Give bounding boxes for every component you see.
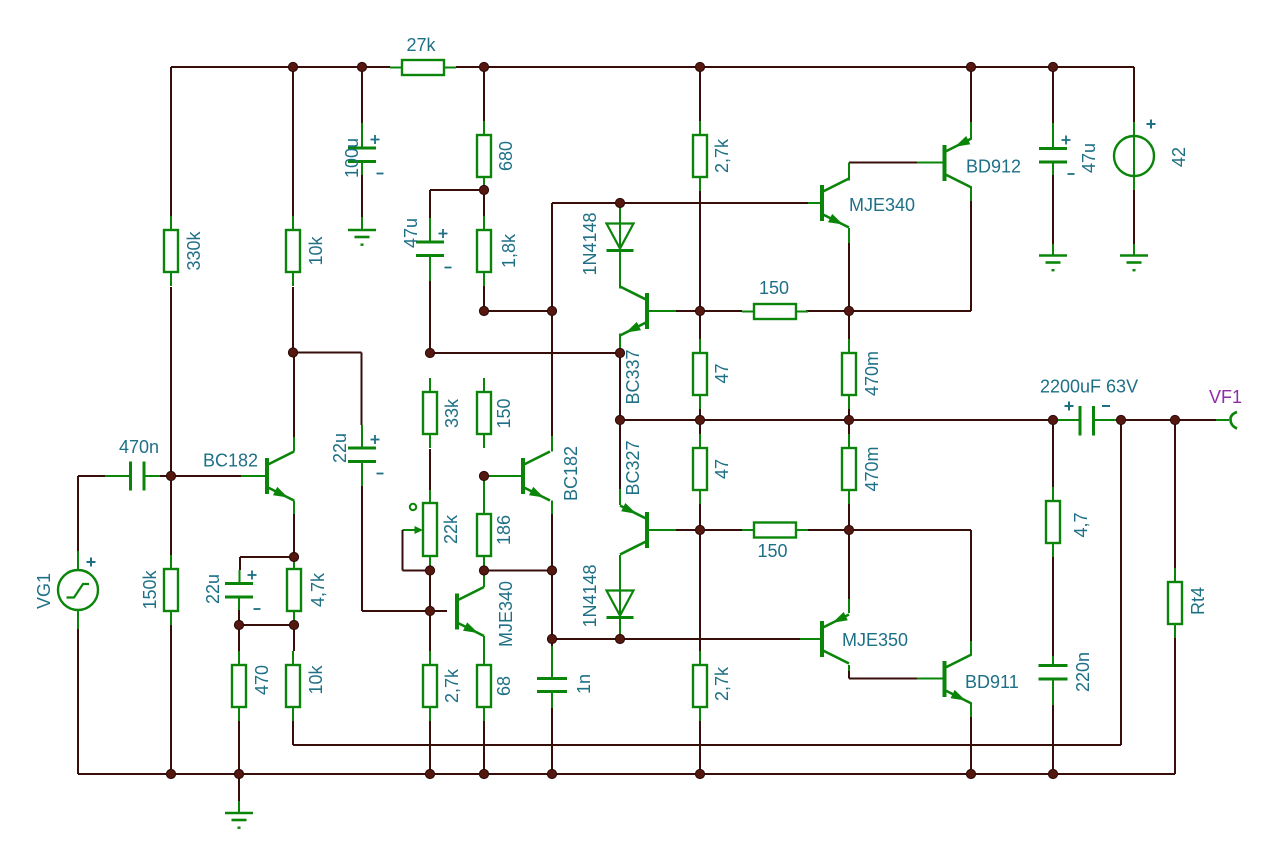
- junction node (620,203): [615, 198, 624, 207]
- junction node (293,352.5): [288, 348, 297, 357]
- wire 2.7k-3 bottom to ground bus: [699, 719, 701, 774]
- wire emitter node to 22u-2 corner: [240, 557, 294, 570]
- wire MJE340-2 base node down to 2.7k: [429, 611, 431, 651]
- wire 100u top green stub: [361, 123, 363, 148]
- wire Rt4 bottom to ground bus corner: [1174, 638, 1176, 774]
- junction node (430,611): [425, 606, 434, 615]
- svg-text:1N4148: 1N4148: [580, 212, 600, 275]
- junction node (700,420): [695, 415, 704, 424]
- wire 680 top lead from rail: [483, 67, 485, 121]
- junction node (552,311): [547, 306, 556, 315]
- transistor BD911: [943, 655, 972, 704]
- transistor BC182 input: [265, 452, 294, 501]
- wire 100u bottom green stub: [361, 162, 363, 176]
- svg-text:27k: 27k: [406, 35, 436, 55]
- wire diode node to MJE340 base: [620, 202, 808, 204]
- wire BC182-2 collector green stub: [551, 436, 553, 452]
- wire 47u-3 bottom to ground: [1052, 175, 1054, 244]
- junction node (484,67): [479, 62, 488, 71]
- wire 100u bottom to ground: [361, 175, 363, 217]
- wire output row to 47-2: [699, 420, 701, 434]
- wire BC327 base to 47 column: [676, 529, 700, 531]
- resistor 47 upper: [693, 339, 707, 409]
- potentiometer 22k: [403, 503, 438, 571]
- wire 4.7 bottom to 220n: [1052, 557, 1054, 656]
- wire 220n bottom to ground bus: [1052, 705, 1054, 774]
- wire diode-1 cathode to BC337 collector: [619, 251, 621, 289]
- svg-text:VG1: VG1: [34, 573, 54, 609]
- svg-text:2,7k: 2,7k: [712, 666, 732, 701]
- wire 220n bottom green stub: [1052, 679, 1054, 705]
- svg-text:22u: 22u: [203, 574, 223, 604]
- wire Rt4 top lead: [1174, 420, 1176, 568]
- svg-text:1,8k: 1,8k: [499, 233, 519, 268]
- wire 1n bottom green stub: [551, 692, 553, 709]
- wire diode-1 top green lead: [619, 203, 621, 224]
- wire pot bottom node down to MJE340-2 base node: [429, 571, 431, 612]
- junction node (1121,420): [1116, 415, 1125, 424]
- wire 2.7k-2 top from MJE340-2 base node: [429, 611, 431, 651]
- wire 330k top green stub: [170, 216, 172, 230]
- ground (42V source): [1120, 244, 1148, 271]
- junction node (849,530): [844, 525, 853, 534]
- wire 470n left green lead: [105, 475, 130, 477]
- wire 22u-2 bottom to 470 row: [238, 610, 240, 625]
- junction node (1175,420): [1170, 415, 1179, 424]
- wire 470 row: [239, 624, 294, 626]
- wire 680 top green stub: [483, 121, 485, 135]
- ground (main bus): [225, 801, 253, 829]
- svg-text:MJE350: MJE350: [842, 630, 908, 650]
- resistor 680: [477, 121, 491, 191]
- wire 47-1 bottom to output row: [699, 408, 701, 420]
- wire 22u-1 bottom green stub: [361, 462, 363, 487]
- wire MJE350 emitter green stub: [848, 599, 850, 613]
- wire 47u-2 top green stub: [429, 218, 431, 242]
- svg-text:MJE340: MJE340: [496, 581, 516, 647]
- wire 4.7k bottom to 470 row: [293, 611, 295, 625]
- capacitor 100u electrolytic: [348, 135, 384, 174]
- wire 10k top lead from rail: [292, 67, 294, 216]
- wire Rt4 bottom green stub: [1174, 624, 1176, 638]
- wire 42V bottom green stub: [1133, 176, 1135, 190]
- wire 4.7 top green stub: [1052, 489, 1054, 501]
- capacitor 470n input: [131, 462, 145, 491]
- resistor 470m upper: [842, 339, 856, 409]
- junction node (484,190): [479, 185, 488, 194]
- wire MJE340-2 emitter green stub: [483, 636, 485, 651]
- wire BC337 base to 2.7k column: [676, 310, 700, 312]
- junction node (294,625): [289, 620, 298, 629]
- wire MJE350 emitter from node: [848, 530, 850, 599]
- resistor Rt4: [1168, 568, 1182, 638]
- resistor 4.7k: [287, 555, 301, 625]
- svg-text:MJE340: MJE340: [849, 195, 915, 215]
- wire ground-bus ground stub: [238, 774, 240, 801]
- wire MJE340-1 base green stub: [808, 202, 821, 204]
- wire 1.8k bottom to VAS node: [483, 285, 485, 311]
- transistor MJE340 upper driver: [820, 179, 849, 228]
- wire BC327 collector to diode 2: [619, 555, 621, 560]
- wire output row: [620, 419, 1053, 421]
- wire 186 top green stub: [483, 476, 485, 514]
- transistor MJE340 lower driver: [455, 587, 484, 636]
- junction node (1053,420): [1048, 415, 1057, 424]
- wire BD911 emitter to ground bus: [970, 703, 972, 774]
- junction node (484,311): [479, 306, 488, 315]
- wire MJE340-1 emitter green stub: [848, 228, 850, 243]
- wire BC182-1 emitter green stub: [293, 501, 295, 515]
- svg-text:220n: 220n: [1073, 652, 1093, 692]
- wire BC337 base green stub: [649, 310, 676, 312]
- svg-text:47u: 47u: [1079, 143, 1099, 173]
- wire 470m-2 bottom to 150-2 node: [848, 504, 850, 530]
- wire 2200uF- lead to feedback node: [1094, 419, 1122, 421]
- resistor 47 lower: [693, 434, 707, 504]
- wire MJE340 collector to BD912 base: [849, 163, 917, 181]
- diode 1N4148 lower: [607, 591, 634, 618]
- wire 47u-3 top green stub: [1052, 123, 1054, 149]
- svg-text:2200uF 63V: 2200uF 63V: [1040, 377, 1138, 397]
- junction node (1053,774): [1048, 769, 1057, 778]
- junction node (362,67): [357, 62, 366, 71]
- wire MJE350 base green stub: [800, 638, 821, 640]
- wire MJE340-2 collector green stub: [483, 571, 485, 588]
- svg-text:47u: 47u: [401, 218, 421, 248]
- wire 47u bottom to 33k node: [429, 281, 431, 353]
- wire 2.7k-1 bottom to BC337 base node: [699, 191, 701, 311]
- wire BC182-2 emitter green stub: [551, 501, 553, 515]
- wire 42V source bottom to ground: [1133, 190, 1135, 244]
- wire 150-2 row left: [700, 529, 742, 531]
- wire BD911 emitter green stub: [970, 703, 972, 717]
- wire BC182-1 collector green stub: [293, 437, 295, 452]
- wire rail corner to 42V source: [1133, 67, 1135, 122]
- wire 47u-2 bottom green stub: [429, 256, 431, 282]
- resistor 4.7: [1046, 487, 1060, 557]
- wire 330k/150k column from rail to input node: [170, 67, 172, 476]
- wire 220n top green stub: [1052, 656, 1054, 666]
- wire 22u-2 top green stub: [239, 570, 241, 584]
- svg-text:150: 150: [494, 398, 514, 428]
- wire 47u-3 bottom green stub: [1052, 162, 1054, 175]
- wire 10k-2 bottom corner to feedback: [292, 719, 294, 745]
- wire 470 top lead: [238, 625, 240, 651]
- resistor 2.7k (BC337 bias): [693, 121, 707, 191]
- junction node (700,311): [695, 306, 704, 315]
- wire 186 bottom green stub: [483, 556, 485, 571]
- resistor 2.7k (BC327 bias): [693, 651, 707, 721]
- wire 2.7k-1 top from rail: [699, 67, 701, 121]
- resistor 10k (input divider): [286, 216, 300, 286]
- junction node (430,774): [425, 769, 434, 778]
- resistor 27k: [390, 60, 456, 75]
- wire 470n right green lead: [144, 475, 160, 477]
- wire MJE350 collector green stub: [848, 665, 850, 671]
- wire Rt4 node to VF1 pin: [1175, 419, 1216, 421]
- wire output to 470m-2: [848, 420, 850, 434]
- wire BD912 base green stub: [917, 162, 943, 164]
- resistor 33k: [423, 378, 437, 448]
- wire top supply rail (+42V net): [171, 66, 1134, 68]
- voltage source 42V: [1114, 136, 1154, 176]
- wire BD911 base green stub: [917, 678, 943, 680]
- wire MJE340 emitter to 470m-1: [848, 243, 850, 339]
- resistor 10k feedback: [286, 651, 300, 721]
- wire 22u-1 bottom to MJE340-2 base row: [362, 486, 447, 611]
- wire 1n bottom to ground bus: [551, 708, 553, 774]
- wire BD911 collector green stub: [970, 641, 972, 655]
- wire output node to 4.7: [1052, 420, 1054, 489]
- wire MJE340-2 collector node to BC182-2 emitter: [484, 570, 552, 572]
- svg-text:1n: 1n: [574, 674, 594, 694]
- svg-text:BD912: BD912: [966, 157, 1021, 177]
- capacitor 47u top-right: [1039, 136, 1075, 175]
- junction node (620,639): [615, 634, 624, 643]
- junction node (620,420): [615, 415, 624, 424]
- resistor 150 upper: [742, 304, 808, 319]
- plus 42V: [1147, 120, 1156, 129]
- ground (47u top-right): [1039, 244, 1067, 271]
- wire pot top green stub: [429, 490, 431, 503]
- wire 10k bottom to BC182 collector node: [292, 287, 294, 353]
- wire rail to 27k: [362, 66, 390, 68]
- wire BC182-1 base green stub: [241, 475, 265, 477]
- wire BC327 emitter green stub: [619, 489, 621, 505]
- svg-text:100u: 100u: [342, 138, 362, 178]
- svg-text:22u: 22u: [330, 433, 350, 463]
- minus 2200uF: [1102, 405, 1110, 407]
- diode 1N4148 upper: [607, 224, 634, 251]
- svg-text:47: 47: [712, 363, 732, 383]
- plus VG1: [87, 558, 96, 567]
- wire 1n top lead: [551, 639, 553, 646]
- svg-text:10k: 10k: [306, 664, 326, 694]
- resistor 470m lower: [842, 434, 856, 504]
- svg-text:BC337: BC337: [623, 349, 643, 404]
- svg-text:1N4148: 1N4148: [580, 564, 600, 627]
- wire 150-1 row right to 470m node: [806, 310, 849, 312]
- svg-text:VF1: VF1: [1209, 387, 1242, 407]
- resistor 1.8k: [477, 216, 491, 286]
- svg-text:470n: 470n: [119, 437, 159, 457]
- wire 470n to input node: [144, 475, 160, 477]
- junction node (239,625): [234, 620, 243, 629]
- wire 680 bottom to 1.8k: [483, 190, 485, 216]
- wire ground bus: [78, 773, 1175, 775]
- svg-text:47: 47: [712, 459, 732, 479]
- wire input node down to 150k: [170, 476, 172, 774]
- wire 4.7 bottom green stub: [1052, 543, 1054, 557]
- svg-text:330k: 330k: [184, 230, 204, 270]
- wire emitter node to 4.7k: [293, 557, 295, 569]
- wire 150-1 row left: [700, 310, 742, 312]
- svg-text:186: 186: [494, 515, 514, 545]
- svg-text:Rt4: Rt4: [1188, 587, 1208, 615]
- wire BC327 collector to diode-2 green lead: [619, 555, 621, 591]
- wire BC182-1 emitter down: [293, 514, 295, 557]
- wire BC182-2 collector lead: [551, 311, 553, 436]
- junction node (849,311): [844, 306, 853, 315]
- resistor 186: [477, 500, 491, 570]
- junction node (293,67): [288, 62, 297, 71]
- svg-text:BD911: BD911: [965, 672, 1019, 692]
- wire 100u top lead from rail: [361, 67, 363, 123]
- svg-text:2,7k: 2,7k: [712, 138, 732, 173]
- junction node (430,570.5): [425, 566, 434, 575]
- svg-text:470: 470: [252, 665, 272, 695]
- capacitor 47u electrolytic (VAS): [416, 229, 452, 268]
- wire BC337 base node to 47-1: [699, 311, 701, 339]
- wire BD912 collector green stub: [970, 187, 972, 201]
- wire 42V top green stub: [1133, 122, 1135, 136]
- wire MJE350 collector to BD911 base: [849, 665, 917, 679]
- junction node (294,557): [289, 552, 298, 561]
- resistor 150 lower: [742, 523, 808, 538]
- wire BD912 emitter from rail: [970, 67, 972, 122]
- wire input node to BC182 base: [160, 475, 241, 477]
- wire 22u-1 top green stub: [361, 425, 363, 448]
- wire BC327 base node down to 2.7k-3: [699, 530, 701, 651]
- wire node to 22u coupling (corner): [293, 353, 362, 426]
- wire MJE340-1 collector green stub: [848, 163, 850, 181]
- junction node (700,774): [695, 769, 704, 778]
- wire 33k bottom to pot top: [429, 449, 431, 490]
- svg-text:470m: 470m: [862, 446, 882, 491]
- output pin VF1: [1230, 412, 1237, 429]
- wire 10k-1 top green stub: [292, 216, 294, 230]
- svg-text:150: 150: [757, 541, 787, 561]
- transistor BD912: [943, 136, 972, 188]
- capacitor 22u (x239): [225, 571, 261, 610]
- wire BC182-2 emitter down: [551, 514, 553, 639]
- wire VG1 top to input coupling: [78, 476, 105, 551]
- resistor 2.7k (MJE340-2): [423, 651, 437, 721]
- junction node (971,774): [966, 769, 975, 778]
- wire 22u-2 bottom green stub: [238, 597, 240, 610]
- wire 68 bottom to ground bus: [483, 719, 485, 774]
- svg-text:BC182: BC182: [203, 451, 258, 471]
- wire VG1 bottom to ground bus: [77, 629, 79, 774]
- wire 2.7k-2 bottom to ground bus: [429, 719, 431, 774]
- wire VF1 green lead: [1216, 419, 1229, 421]
- resistor 150 (VAS emitter): [477, 378, 491, 448]
- junction node (171,774): [166, 769, 175, 778]
- svg-text:470m: 470m: [862, 351, 882, 396]
- junction node (552,639): [547, 634, 556, 643]
- junction node (171,476): [166, 471, 175, 480]
- wire 150-2 node to BD911 collector: [849, 530, 971, 641]
- junction node (700,530): [695, 525, 704, 534]
- svg-text:150k: 150k: [140, 569, 160, 609]
- wire 47-2 bottom to BC327 base node: [699, 504, 701, 530]
- wire VG1 bottom green stub: [77, 610, 79, 629]
- svg-text:BC327: BC327: [623, 440, 643, 495]
- capacitor 1n: [537, 679, 567, 692]
- wire diode-2 cathode green lead: [619, 618, 621, 640]
- wire Rt4 top green stub: [1174, 568, 1176, 582]
- junction node (552,570.5): [547, 566, 556, 575]
- resistor 150k: [164, 555, 178, 625]
- wire feedback line: [293, 420, 1121, 745]
- junction node (484,774): [479, 769, 488, 778]
- svg-text:22k: 22k: [441, 514, 461, 544]
- junction node (239,774): [234, 769, 243, 778]
- plus 2200uF: [1065, 402, 1074, 411]
- svg-text:10k: 10k: [306, 235, 326, 265]
- junction node (430,353): [425, 348, 434, 357]
- wire BC337 emitter green stub: [619, 334, 621, 354]
- wire BD912 emitter green stub: [970, 122, 972, 139]
- junction node (620,353): [615, 348, 624, 357]
- wire 470m node to BD912 collector: [849, 201, 971, 311]
- wire BC327 base green stub: [649, 529, 676, 531]
- transistor BC182 second: [521, 452, 550, 501]
- wire feedback node to Rt4 node: [1121, 419, 1175, 421]
- resistor 68: [477, 651, 491, 721]
- wire 2200uF+ lead: [1053, 419, 1080, 421]
- wire 1n top green stub: [551, 646, 553, 679]
- svg-text:42: 42: [1169, 147, 1189, 167]
- transistor BC327: [620, 503, 649, 555]
- wire 2.7k-1 top green stub: [699, 121, 701, 135]
- resistor 470: [232, 651, 246, 721]
- svg-text:68: 68: [494, 676, 514, 696]
- wire 47u top corner to 680 bottom node: [430, 190, 484, 218]
- wire MJE350 base row: [620, 638, 800, 640]
- wire pot bottom green stub: [429, 556, 431, 571]
- wire VG1 top green stub: [77, 551, 79, 570]
- junction node (700,67): [695, 62, 704, 71]
- resistor 330k: [164, 216, 178, 286]
- svg-text:BC182: BC182: [561, 446, 581, 501]
- svg-text:4,7k: 4,7k: [308, 572, 328, 607]
- junction node (484,476): [479, 471, 488, 480]
- voltage generator VG1: [58, 570, 98, 610]
- capacitor 2200uF 63V output: [1080, 406, 1094, 436]
- wire 470m-1 bottom to output row: [848, 408, 850, 420]
- wire 47u-3 top from rail: [1052, 67, 1054, 123]
- wire 10k-2 top lead: [293, 625, 295, 651]
- junction node (849,420): [844, 415, 853, 424]
- junction node (484,570.5): [479, 566, 488, 575]
- transistor BC337: [620, 287, 649, 336]
- capacitor 220n: [1039, 666, 1068, 680]
- svg-text:4,7: 4,7: [1071, 512, 1091, 537]
- wire BC182 collector up to node: [293, 353, 295, 438]
- junction node (1053,67): [1048, 62, 1057, 71]
- svg-text:150: 150: [759, 278, 789, 298]
- wire VAS node to BC182-2 collector column: [484, 203, 620, 311]
- wire MJE340-2 emitter to 68: [483, 649, 485, 665]
- svg-text:2,7k: 2,7k: [442, 668, 462, 703]
- wire 150-2 row right: [806, 529, 849, 531]
- capacitor 22u (x362): [348, 435, 384, 474]
- wire bias chain emitters column: [619, 353, 621, 489]
- svg-text:680: 680: [496, 141, 516, 171]
- junction node (552,774): [547, 769, 556, 778]
- wire 470 bottom to ground bus: [238, 719, 240, 774]
- junction node (971,67): [966, 62, 975, 71]
- svg-text:33k: 33k: [442, 398, 462, 428]
- wire BC182-2 base green lead: [484, 475, 521, 477]
- wire diode 2 to MJE350 base row: [552, 638, 620, 640]
- transistor MJE350: [820, 612, 849, 664]
- wire 33k node to bias chain: [430, 352, 620, 354]
- ground (100u): [348, 217, 376, 246]
